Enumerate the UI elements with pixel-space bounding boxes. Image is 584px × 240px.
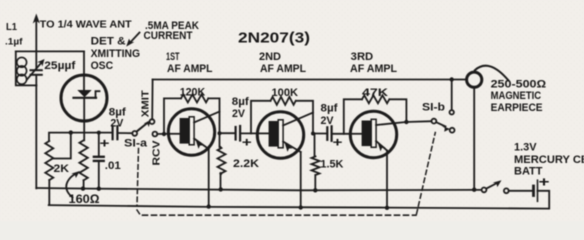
- wire upper bus: [36, 188, 481, 190]
- wire S1-b upper contact to rail: [451, 80, 453, 111]
- svg-text:L1: L1: [6, 22, 17, 33]
- svg-text:+: +: [100, 137, 110, 151]
- transistor Q3 base lead: [351, 133, 362, 135]
- resistor 2.2K lead bottom: [220, 173, 222, 189]
- svg-text:SI-b: SI-b: [422, 102, 445, 114]
- wire Q1 emitter down to lower bus: [208, 149, 210, 207]
- svg-text:160Ω: 160Ω: [69, 192, 100, 206]
- resistor 47K feedback wire: [344, 99, 407, 134]
- earpiece circle: [467, 72, 482, 87]
- node dot stage1 collector: [218, 131, 222, 135]
- switch S1-a RCV contact: [153, 132, 158, 137]
- svg-text:25µµf: 25µµf: [44, 60, 75, 72]
- svg-text:DET &: DET &: [91, 36, 126, 48]
- transistor Q1 emitter lead with arrow: [194, 139, 209, 150]
- dashed linkage S1-a vertical: [137, 149, 140, 215]
- svg-text:TO 1/4 WAVE ANT: TO 1/4 WAVE ANT: [40, 19, 133, 30]
- svg-text:8µf: 8µf: [109, 107, 127, 119]
- wire 160ohm bottom lead: [83, 180, 85, 188]
- tunnel diode oscillator circle: [61, 75, 107, 121]
- antenna lead wire with up arrow: [33, 14, 40, 70]
- svg-text:1.3V: 1.3V: [514, 141, 537, 153]
- variable capacitor 25uuf plates: [31, 70, 42, 75]
- svg-text:RCV: RCV: [152, 140, 163, 165]
- resistor 1.5K zigzag: [312, 156, 320, 175]
- switch S1-c arm with arrow: [486, 180, 501, 188]
- svg-text:2V: 2V: [110, 118, 123, 130]
- node dot stage3 collector: [404, 120, 408, 124]
- node dot earpiece on upper bus: [472, 188, 476, 192]
- dashed linkage diagonal to S1-b: [417, 133, 436, 215]
- svg-text:+: +: [333, 136, 343, 150]
- transistor Q3 collector lead: [376, 122, 406, 125]
- resistor 2K: [45, 141, 53, 180]
- resistor 100K feedback wire: [251, 101, 313, 134]
- switch S1-b upper contact: [450, 110, 454, 114]
- wire main left vertical down to bus: [35, 85, 37, 188]
- dashed linkage bottom horizontal: [143, 214, 417, 216]
- transistor Q2 circle: [257, 112, 303, 158]
- wire battery to lower bus corner: [49, 191, 550, 209]
- transistor Q2 emitter lead with arrow: [283, 142, 301, 153]
- wire stage3 base: [332, 133, 351, 135]
- switch S1-b lower contact: [450, 128, 455, 133]
- svg-text:2K: 2K: [54, 163, 70, 175]
- variable capacitor arrow: [27, 59, 45, 80]
- battery negative plate: [532, 186, 535, 196]
- tunnel diode cathode bar with hook: [74, 91, 100, 98]
- inductor L1 frame: [16, 51, 37, 85]
- wire audio line left horizontal: [49, 133, 111, 141]
- transistor Q1 base lead: [170, 133, 180, 135]
- node dot 160ohm on bus: [81, 186, 85, 190]
- resistor 100K zigzag: [271, 97, 296, 105]
- transistor Q2 base bar: [269, 120, 284, 148]
- svg-text:2V: 2V: [321, 115, 334, 127]
- svg-text:AF AMPL: AF AMPL: [260, 63, 306, 75]
- wire Q2 emitter down to lower bus: [300, 152, 302, 208]
- switch S1-a arm: [137, 120, 151, 131]
- capacitor 8uf stage2 plates: [327, 126, 331, 141]
- switch S1-a pole contact: [132, 131, 137, 136]
- transistor Q1 circle: [168, 109, 214, 155]
- arrow 160ohm pointer: [66, 171, 80, 198]
- svg-text:1ST: 1ST: [166, 51, 180, 63]
- wire collector node to cap: [220, 132, 236, 134]
- svg-text:100K: 100K: [272, 87, 299, 99]
- capacitor .01 bottom lead: [98, 161, 100, 189]
- resistor 2.2K zigzag: [218, 147, 226, 174]
- transistor Q1 collector lead: [194, 112, 219, 123]
- svg-text:OSC: OSC: [91, 60, 114, 72]
- wire contact to battery: [509, 190, 533, 192]
- transistor Q3 emitter lead with arrow: [376, 141, 387, 151]
- node dot 1.5K on upper bus: [313, 188, 317, 192]
- capacitor 8uf oscillator output plates: [113, 126, 118, 139]
- wire cap to switch S1-a pole: [117, 132, 132, 134]
- svg-text:AF AMPL: AF AMPL: [350, 63, 397, 75]
- svg-text:.01: .01: [105, 160, 121, 172]
- battery positive plate: [537, 180, 539, 201]
- node dot 2.2K on upper bus: [219, 187, 223, 191]
- capacitor .01 plates: [94, 157, 104, 161]
- svg-text:120K: 120K: [180, 87, 206, 99]
- svg-text:EARPIECE: EARPIECE: [491, 102, 543, 114]
- svg-text:MAGNETIC: MAGNETIC: [491, 90, 542, 102]
- transistor Q2 base lead: [258, 132, 269, 134]
- svg-text:47K: 47K: [362, 87, 388, 99]
- transistor Q3 circle: [350, 111, 396, 157]
- wire collector3 to S1-b pole: [406, 120, 431, 123]
- resistor 47K zigzag: [362, 95, 389, 103]
- node dot tap-wire junction: [69, 130, 73, 134]
- svg-text:2V: 2V: [232, 108, 245, 120]
- svg-text:3RD: 3RD: [351, 51, 374, 63]
- node dot Q1 emitter on lower bus: [207, 204, 211, 208]
- svg-text:2.2K: 2.2K: [233, 158, 259, 170]
- svg-text:+: +: [242, 135, 252, 149]
- transistor Q3 base bar: [362, 119, 377, 147]
- svg-text:CURRENT: CURRENT: [144, 30, 193, 42]
- earpiece hook arc: [475, 66, 509, 81]
- oscillator top lead: [83, 51, 85, 90]
- tunnel diode anode triangle: [77, 90, 91, 97]
- svg-text:+: +: [539, 175, 550, 190]
- wire stage2 base: [240, 132, 258, 134]
- resistor 120K zigzag: [181, 94, 208, 102]
- svg-text:.1µf: .1µf: [5, 36, 23, 46]
- oscillator bottom lead: [83, 98, 85, 141]
- capacitor 8uf stage1 plates: [236, 126, 241, 141]
- svg-text:2ND: 2ND: [259, 51, 281, 63]
- wire 2K bottom to lower bus corner: [48, 180, 50, 205]
- switch S1-b arm with arrow: [436, 122, 450, 132]
- wire tank top horizontal: [16, 50, 84, 52]
- transistor Q1 base bar: [180, 117, 194, 145]
- svg-text:XMITTING: XMITTING: [91, 48, 141, 60]
- node dot rail junction: [450, 77, 454, 81]
- inductor L1 loops: [17, 57, 27, 84]
- resistor 120K feedback wire: [164, 98, 220, 134]
- transistor Q2 collector lead: [283, 113, 313, 126]
- resistor 160ohm: [79, 140, 87, 180]
- resistor 2.2K lead top: [219, 133, 221, 147]
- node dot stage2 collector: [311, 132, 315, 136]
- node dot Q2 emitter on lower bus: [299, 205, 303, 209]
- node dot .01 junction: [97, 131, 101, 135]
- wire collector2 node to cap: [313, 133, 327, 135]
- svg-text:2N207(3): 2N207(3): [238, 30, 310, 47]
- svg-text:8µf: 8µf: [232, 96, 250, 108]
- wire XMIT contact up to top rail: [151, 80, 153, 120]
- switch S1-b pole contact: [432, 119, 437, 124]
- switch S1-c throw contact: [504, 188, 509, 193]
- wire top rail: [153, 79, 467, 81]
- wire earpiece down to upper bus: [473, 87, 475, 189]
- node dot .01 on bus: [97, 187, 101, 191]
- wire 2K tap box: [53, 133, 71, 159]
- wire cap vertical lower: [35, 76, 37, 86]
- switch S1-c pole contact: [482, 188, 487, 193]
- node dot Q3 emitter on lower bus: [385, 206, 389, 210]
- switch S1-a XMIT contact: [150, 119, 155, 124]
- svg-text:250-500Ω: 250-500Ω: [491, 78, 546, 90]
- svg-text:1.5K: 1.5K: [320, 159, 343, 171]
- arrow DET pointer: [126, 33, 139, 47]
- wire Q3 emitter down to lower bus: [386, 151, 388, 208]
- capacitor .01 top lead: [98, 133, 100, 157]
- resistor 1.5K lead bottom: [314, 175, 316, 190]
- svg-text:XMIT: XMIT: [141, 89, 152, 117]
- svg-text:8µf: 8µf: [321, 103, 339, 115]
- svg-text:SI-a: SI-a: [124, 138, 148, 150]
- resistor 1.5K lead top: [314, 134, 316, 157]
- wire stage1 base: [157, 133, 169, 135]
- node dot base1 junction: [162, 132, 166, 136]
- svg-text:AF AMPL: AF AMPL: [167, 63, 213, 75]
